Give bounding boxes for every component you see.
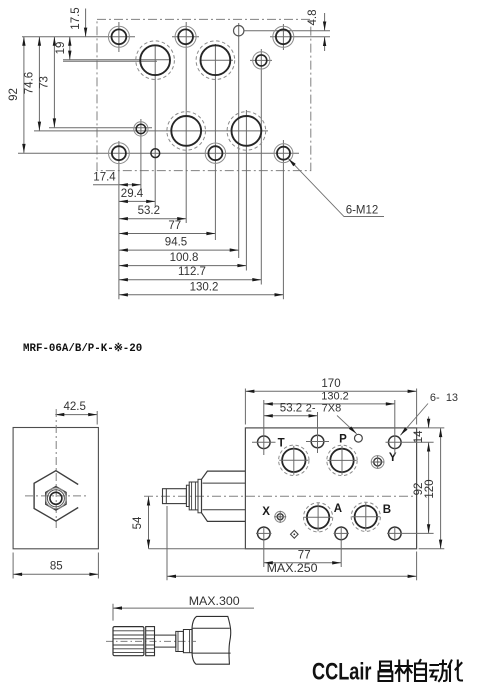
big hole B1 — [136, 41, 175, 80]
hole D2 — [205, 143, 225, 163]
hole A3 center line / 4.8 ext — [270, 36, 330, 38]
dimension 17.5 line — [85, 9, 87, 37]
dimension 29.4 — [119, 200, 155, 202]
svg-text:A: A — [334, 503, 342, 515]
dimension 170 — [244, 389, 246, 425]
row D center line / dim 92 extension — [18, 152, 299, 154]
hole A1 — [108, 26, 129, 47]
adjustment screw stem — [163, 489, 187, 504]
svg-text:P: P — [339, 434, 347, 446]
svg-text:42.5: 42.5 — [64, 401, 86, 413]
hole B2 center line — [200, 59, 233, 61]
port bottom right — [389, 527, 402, 540]
svg-text:4.8: 4.8 — [307, 10, 319, 26]
row B center line — [63, 60, 157, 62]
svg-text:120: 120 — [424, 479, 436, 498]
dim 74.6 extension / row C center line — [34, 130, 268, 132]
Y hole vertical line — [394, 434, 396, 455]
bottom hole 2 vertical / 77 ext — [340, 526, 342, 567]
P hole vertical line — [317, 433, 319, 453]
shaft — [155, 635, 176, 647]
dimension 74.6 line — [38, 37, 40, 131]
lock ring 1 — [186, 485, 189, 506]
column x=118.9 extension to chain base — [118, 141, 120, 299]
column x=140.9 (17.4) — [140, 119, 142, 189]
leader 2-7X8 — [337, 416, 357, 434]
svg-text:73: 73 — [39, 76, 51, 89]
column x=283.4 (130.2) — [282, 140, 284, 299]
valve body broken view — [192, 616, 231, 664]
knurled ring — [146, 627, 155, 656]
lock nut — [189, 482, 198, 510]
hex flat line top — [203, 482, 246, 484]
bottom hole 3 vertical — [394, 526, 396, 541]
svg-text:77: 77 — [298, 549, 311, 561]
dimension 92 line — [23, 37, 25, 153]
leader 6-M12 — [288, 159, 384, 217]
svg-text:17.5: 17.5 — [70, 7, 82, 29]
dimension 42.5 — [96, 411, 98, 425]
hole A3 — [273, 26, 294, 47]
port P — [311, 435, 324, 448]
block outline — [13, 428, 98, 549]
bottom hole 1 vertical / 77 ext — [263, 526, 265, 567]
svg-text:MAX.250: MAX.250 — [267, 561, 318, 575]
svg-text:Y: Y — [389, 452, 397, 464]
dimension 53.2 — [119, 218, 186, 220]
big port A — [304, 503, 333, 532]
svg-text:92: 92 — [413, 483, 425, 496]
column x=238.7 (94.5) — [238, 23, 240, 258]
column x=261.3 (112.7) — [260, 49, 262, 285]
bottom hole 1 horizontal — [256, 532, 272, 534]
svg-text:53.2: 53.2 — [280, 402, 302, 414]
MAX.250 left extension (stem tip) — [166, 506, 168, 580]
svg-text:130.2: 130.2 — [321, 390, 349, 402]
small pilot hole top — [234, 26, 244, 36]
dimension 17.4 — [119, 184, 141, 186]
stem tip line — [165, 489, 167, 504]
svg-text:B: B — [383, 504, 391, 516]
svg-text:92: 92 — [8, 88, 20, 101]
big port B — [351, 502, 380, 531]
bottom hole 2 horizontal — [334, 532, 350, 534]
plate outline (phantom) — [97, 19, 311, 170]
svg-text:77: 77 — [168, 220, 181, 232]
svg-text:6- 13: 6- 13 — [430, 392, 458, 404]
port T — [258, 436, 271, 449]
hole A2 — [175, 26, 196, 47]
dimension 73 line — [53, 37, 55, 128]
dimension 100.8 — [119, 265, 246, 267]
svg-text:130.2: 130.2 — [190, 281, 219, 293]
Y hole horizontal / 14 ext — [386, 441, 434, 443]
big hole C1 — [167, 112, 206, 151]
svg-text:MAX.300: MAX.300 — [189, 594, 240, 608]
dimension 4.8 — [324, 13, 326, 31]
dimension 130.2 — [263, 400, 265, 433]
block vertical center line — [55, 409, 57, 528]
small port Y2 — [371, 456, 384, 469]
hole A2 center line — [172, 36, 199, 38]
slot hole 7X8 bottom (diamond) — [291, 530, 299, 538]
hex flat line bottom — [203, 509, 246, 511]
dimension 94.5 — [119, 249, 239, 251]
svg-text:17.4: 17.4 — [93, 171, 116, 183]
ring 3 — [198, 479, 202, 513]
body flat line bottom — [192, 652, 230, 654]
block horizontal center line — [25, 495, 87, 497]
dimension 130.2 — [119, 294, 284, 296]
svg-text:100.8: 100.8 — [170, 252, 199, 264]
54 bottom extension / body bottom ext — [149, 548, 246, 550]
svg-text:19: 19 — [55, 42, 67, 55]
svg-text:53.2: 53.2 — [138, 205, 160, 217]
leader 6-13 — [400, 404, 428, 436]
bottom hole 3 horizontal / 92 ext — [387, 532, 434, 534]
svg-text:85: 85 — [50, 561, 63, 573]
small hole D — [151, 149, 160, 158]
svg-text:X: X — [262, 506, 270, 518]
P hole horizontal line — [306, 441, 329, 443]
dimension 85 — [12, 553, 14, 579]
hole BM center line — [250, 59, 272, 61]
hole D3 (6-M12) — [274, 144, 293, 163]
svg-text:94.5: 94.5 — [165, 237, 187, 249]
svg-text:CCLair: CCLair — [312, 659, 372, 686]
dimension 19 line — [69, 37, 71, 60]
MAX.250 right extension — [416, 552, 418, 581]
svg-text:2- 7X8: 2- 7X8 — [306, 402, 341, 414]
svg-text:170: 170 — [321, 378, 340, 390]
column x=246.4 (100.8) — [245, 110, 247, 271]
body bottom edge extension — [419, 548, 445, 550]
svg-text:74.6: 74.6 — [24, 72, 36, 94]
big port top 2 — [327, 445, 357, 475]
svg-text:14: 14 — [413, 430, 425, 443]
dimension 112.7 — [119, 279, 261, 281]
body outline — [245, 428, 416, 549]
row A center line / left dim reference — [22, 36, 135, 38]
dimension 92 (view2) — [428, 443, 430, 534]
svg-text:MRF-06A/B/P-K-※-20: MRF-06A/B/P-K-※-20 — [23, 342, 142, 355]
big hole C2 — [227, 112, 266, 151]
hole A3 vertical center line — [282, 24, 284, 50]
knob center line — [106, 640, 196, 642]
dim 73 extension line — [49, 127, 152, 129]
body flat line top — [192, 627, 229, 629]
port Y — [389, 436, 402, 449]
column x=186.2 (53.2) — [185, 22, 187, 223]
T hole horizontal line — [252, 441, 276, 443]
dimension 17.4 line extension under text — [93, 184, 118, 186]
hole BM — [253, 52, 270, 69]
svg-text:29.4: 29.4 — [121, 188, 144, 200]
nut 2 — [183, 630, 192, 653]
knurled knob — [113, 627, 144, 656]
hex body side view — [202, 471, 246, 521]
logo chinese characters 昌林自动化 — [379, 660, 463, 681]
port X — [275, 511, 286, 522]
small hole C left — [134, 122, 148, 136]
dimension 53.2 — [317, 412, 319, 433]
nut 1 — [176, 631, 184, 651]
big hole B2 — [196, 41, 235, 80]
small hole row line / 4.8 ext — [244, 30, 330, 32]
svg-text:6-M12: 6-M12 — [346, 205, 379, 217]
port bottom left — [258, 527, 271, 540]
column x=215.4 (77) — [214, 44, 216, 240]
MAX.300 extension line — [112, 604, 114, 621]
inner hex — [46, 487, 66, 511]
port bottom middle — [335, 527, 348, 540]
slot hole 7X8 top — [355, 434, 363, 442]
svg-text:54: 54 — [132, 516, 144, 529]
body top edge extension — [417, 427, 445, 429]
dim 19 extension line — [63, 59, 170, 61]
valve axis center line — [144, 495, 414, 497]
hole A1 vertical center line — [118, 22, 120, 52]
T hole vertical line — [263, 433, 265, 455]
svg-text:112.7: 112.7 — [178, 266, 206, 278]
svg-text:T: T — [278, 437, 285, 449]
dimension 77 (view2) — [264, 562, 341, 564]
big port top 1 — [279, 445, 309, 475]
column x=155.2 (29.4) — [154, 45, 156, 206]
hole D1 — [109, 143, 130, 164]
hex nut outline — [34, 471, 78, 521]
dimension 77 — [119, 233, 215, 235]
screw circles — [46, 488, 67, 509]
